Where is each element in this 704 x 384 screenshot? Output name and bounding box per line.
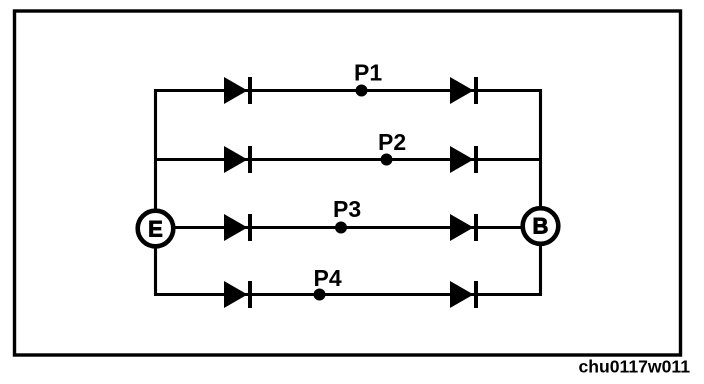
terminal E: [138, 211, 174, 247]
svg-text:P1: P1: [354, 60, 382, 86]
node P2 junction dot: [381, 154, 393, 166]
diode CR7 (row 4 left): [224, 281, 252, 308]
wire row 2 horizontal: [156, 158, 541, 161]
svg-text:B: B: [533, 213, 549, 238]
wire left bus: [154, 89, 157, 296]
diode CR2 (row 1 right): [450, 77, 478, 104]
svg-text:P3: P3: [333, 196, 361, 222]
diode CR5 (row 3 left): [224, 214, 252, 241]
diode CR3 (row 2 left): [224, 146, 252, 173]
wire right bus: [539, 89, 542, 296]
terminal B: [523, 208, 559, 244]
diode CR4 (row 2 right): [450, 146, 478, 173]
wire row 4 horizontal: [156, 293, 541, 296]
diode CR6 (row 3 right): [450, 214, 478, 241]
wire row 1 horizontal: [156, 89, 541, 92]
node P1 junction dot: [356, 85, 368, 97]
svg-text:P2: P2: [378, 129, 406, 155]
wire row 3 horizontal: [156, 226, 541, 229]
node P3 junction dot: [335, 222, 347, 234]
svg-text:P4: P4: [314, 265, 342, 291]
diode CR1 (row 1 left): [224, 77, 252, 104]
svg-text:chu0117w011: chu0117w011: [578, 356, 690, 376]
node P4 junction dot: [314, 289, 326, 301]
svg-text:E: E: [148, 216, 163, 241]
diode CR8 (row 4 right): [450, 281, 478, 308]
